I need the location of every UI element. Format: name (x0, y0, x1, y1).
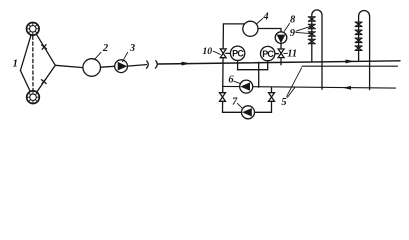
svg-text:10: 10 (202, 46, 212, 57)
dashed centre line of block 1 (32, 36, 34, 90)
svg-text:6: 6 (228, 75, 234, 86)
wire pump 8 to valve 11 (280, 43, 282, 65)
wire to boiler 4 (223, 23, 245, 25)
rope edge top-left (20, 35, 31, 70)
wire vessel 2 to pump 3 (101, 65, 115, 68)
pointer 5 to middle return (287, 68, 302, 97)
pump 7 (242, 106, 255, 119)
right downpipe of pump loop (271, 87, 273, 112)
pulley block 1: top sheave (27, 23, 40, 36)
rope edge top-right (36, 34, 55, 65)
pump 3 (115, 60, 128, 73)
svg-text:1: 1 (13, 59, 18, 70)
heater column left (hairpin) (312, 10, 322, 89)
heater column right (hairpin) (359, 11, 370, 90)
valve 11 (278, 49, 284, 58)
heater ticks right column (355, 22, 362, 50)
cross mark on bottom-right edge (41, 79, 46, 84)
pointer to 2 (94, 52, 101, 59)
svg-text:9: 9 (290, 28, 296, 39)
regulator PC left (230, 46, 244, 70)
pump 8 (275, 32, 287, 44)
svg-text:11: 11 (287, 48, 297, 59)
svg-text:4: 4 (262, 11, 268, 22)
pointer to 4 (257, 19, 263, 24)
pointer to 10 (213, 51, 220, 54)
pointer 9 upper (296, 26, 311, 31)
pointer to 8 (284, 23, 289, 31)
heater ticks left column (308, 17, 315, 44)
main supply line (158, 61, 400, 64)
svg-text:2: 2 (102, 43, 109, 54)
cross mark on top-right edge (42, 45, 47, 50)
boiler 4 (243, 21, 258, 36)
pointer 9 lower (296, 32, 311, 33)
flow arrow on lower return (left) (343, 86, 351, 90)
flow arrow on main line (182, 62, 191, 66)
svg-text:7: 7 (232, 97, 238, 108)
bridge bar under main line (238, 69, 268, 71)
stub regulator to valve 11 (275, 53, 279, 55)
svg-text:РС: РС (232, 49, 244, 59)
pipe break mark right (156, 61, 158, 68)
svg-text:3: 3 (129, 43, 135, 54)
svg-text:РС: РС (262, 49, 274, 59)
dash to 11 (284, 52, 288, 54)
bottom loop wire (223, 111, 272, 113)
riser with valve 10 (vertical at x=223) (222, 24, 225, 112)
wire pump 3 to break (128, 65, 147, 67)
pointer to 7 (237, 103, 242, 108)
rope edge bottom-left (20, 71, 30, 92)
valve 10 (220, 49, 226, 58)
svg-text:8: 8 (290, 14, 296, 25)
bypass drop to return (258, 62, 260, 87)
flow arrow on main line (right) (346, 60, 355, 64)
regulator PC right (261, 46, 275, 69)
wire boiler 4 to pump 8 (258, 29, 281, 33)
pointer to 6 (234, 81, 241, 84)
stub valve 10 to regulator (226, 52, 231, 54)
lower return line (223, 86, 396, 88)
upper branch line right (302, 65, 398, 67)
pointer to 3 (122, 52, 127, 62)
valve on left downpipe (220, 93, 226, 102)
vessel 2 (83, 59, 101, 77)
pump 6 (240, 80, 253, 93)
pipe break mark left (147, 61, 149, 68)
valve on right downpipe (269, 93, 275, 102)
pointer 5 to lower return (287, 88, 294, 98)
wire block1 to vessel 2 (55, 65, 83, 67)
pulley block 1: bottom sheave (27, 91, 40, 104)
svg-text:5: 5 (281, 97, 286, 108)
rope edge bottom-right (37, 65, 55, 92)
